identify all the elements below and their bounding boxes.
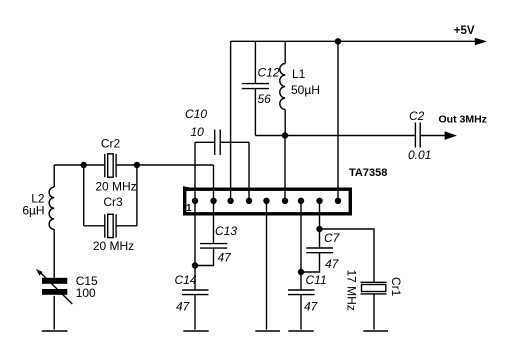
svg-text:Cr1: Cr1	[389, 277, 403, 297]
wire right crystal branch	[136, 165, 138, 226]
output arrow	[445, 131, 457, 140]
svg-text:C11: C11	[306, 273, 327, 287]
wire pin8 node to Cr1	[320, 229, 375, 282]
wire pin1 up	[194, 142, 196, 201]
capacitor C11	[288, 273, 327, 330]
pin 3 dot	[227, 198, 233, 204]
svg-text:17 MHz: 17 MHz	[345, 270, 359, 311]
svg-text:Out 3MHz: Out 3MHz	[439, 114, 487, 126]
pin 9 dot	[335, 198, 341, 204]
svg-text:C13: C13	[215, 224, 237, 238]
capacitor C10	[185, 107, 249, 155]
op-amp IC U1 TA7358 box	[183, 186, 350, 214]
node C7/C11/pin7 junction	[298, 269, 304, 275]
capacitor C13	[195, 201, 237, 266]
pin 2 dot	[210, 198, 216, 204]
pin 1 dot	[192, 198, 198, 204]
svg-text:0.01: 0.01	[408, 148, 431, 162]
crystal Cr2	[95, 137, 136, 194]
wire pin2 up	[213, 165, 215, 201]
node C13/C14/pin1 junction	[192, 262, 198, 268]
svg-text:10: 10	[191, 125, 205, 139]
node crystal-right junction	[134, 162, 140, 168]
wire left crystal branch	[83, 165, 85, 226]
ground (C14)	[183, 330, 208, 332]
svg-text:C10: C10	[185, 107, 207, 121]
pin 6 dot	[282, 198, 288, 204]
wire Cr1 to ground	[373, 294, 375, 330]
svg-text:47: 47	[325, 257, 340, 271]
ground (C15)	[42, 330, 68, 332]
wire C12 bottom elbow to node	[255, 135, 285, 137]
ground (pin5)	[255, 330, 280, 332]
capacitor C12	[242, 41, 280, 135]
node pin8/C7/Cr1 junction	[316, 226, 322, 232]
svg-text:C7: C7	[324, 231, 341, 245]
svg-text:50µH: 50µH	[291, 83, 320, 97]
svg-text:20 MHz: 20 MHz	[95, 180, 136, 194]
wire pin6 up	[284, 136, 286, 201]
ground (C11)	[288, 330, 313, 332]
svg-text:20 MHz: 20 MHz	[93, 239, 134, 253]
wire pin9 up to rail	[337, 41, 339, 201]
node rail/pin9 junction	[335, 38, 341, 44]
inductor L1	[280, 41, 320, 135]
ground (Cr1)	[363, 330, 388, 332]
crystal Cr1	[345, 270, 404, 311]
wire node wire (L2 to Cr2)	[54, 164, 105, 166]
wire +5V supply rail	[231, 40, 476, 42]
node L1/C12/pin6 junction	[282, 132, 288, 138]
capacitor C2	[408, 109, 431, 162]
wire Cr2 to pin2	[116, 164, 213, 166]
capacitor C14	[175, 273, 209, 330]
svg-text:Cr2: Cr2	[101, 137, 121, 151]
svg-text:47: 47	[218, 251, 233, 265]
wire pin4 up	[248, 142, 250, 201]
svg-text:C12: C12	[258, 66, 280, 80]
node crystal-left junction	[81, 162, 87, 168]
wire pin7 down	[300, 201, 302, 290]
pin 8 dot	[316, 198, 322, 204]
wire output line	[285, 135, 416, 137]
svg-text:Cr3: Cr3	[103, 195, 123, 209]
svg-text:100: 100	[76, 286, 96, 300]
svg-text:6µH: 6µH	[22, 204, 44, 218]
svg-text:1: 1	[186, 203, 192, 214]
wire pin1 down	[194, 201, 196, 290]
svg-text:47: 47	[304, 300, 319, 314]
wire pin8 down	[319, 201, 321, 248]
wire C2 to output arrow	[420, 135, 446, 137]
pin 7 dot	[298, 198, 304, 204]
capacitor C7	[301, 231, 341, 272]
pin 5 dot	[263, 198, 269, 204]
+5V arrow	[475, 38, 487, 46]
svg-text:56: 56	[258, 92, 272, 106]
wire pin5 down	[266, 201, 268, 330]
capacitor C15 (variable)	[36, 269, 98, 330]
svg-text:L1: L1	[292, 67, 306, 81]
svg-text:C2: C2	[409, 109, 425, 123]
wire pin3 up to rail	[230, 41, 232, 201]
svg-text:47: 47	[176, 300, 191, 314]
pin 4 dot	[246, 198, 252, 204]
inductor L2	[22, 165, 54, 278]
svg-text:TA7358: TA7358	[349, 167, 387, 179]
svg-text:C14: C14	[175, 273, 197, 287]
crystal Cr3	[84, 195, 137, 253]
svg-text:+5V: +5V	[454, 25, 475, 37]
